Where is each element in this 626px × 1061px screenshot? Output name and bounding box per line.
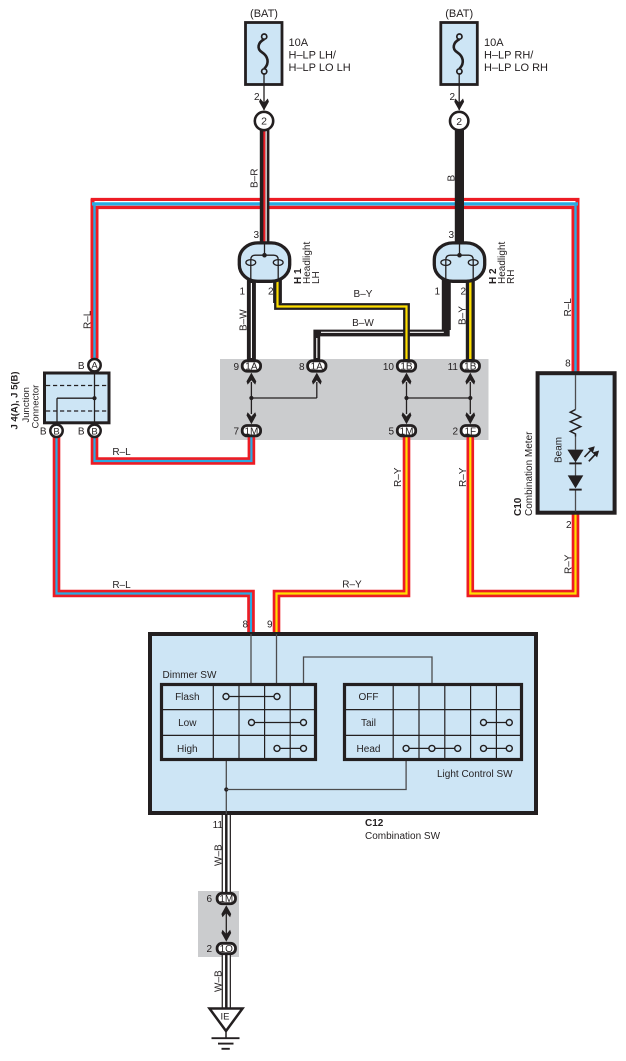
- wire R-L left vertical to junction connector A: [91, 199, 99, 359]
- svg-text:B: B: [53, 426, 59, 437]
- svg-text:2: 2: [261, 116, 267, 128]
- svg-text:B–Y: B–Y: [354, 289, 373, 300]
- svg-text:Connector: Connector: [31, 385, 42, 429]
- wire R-L right vertical blue stripe: [574, 203, 576, 373]
- connector oval 1A pin 9: [242, 361, 260, 373]
- svg-text:1O: 1O: [220, 944, 234, 955]
- svg-text:Low: Low: [178, 718, 197, 729]
- svg-text:3: 3: [448, 230, 454, 241]
- fuse 10A H-LP LH (BAT): [246, 23, 283, 111]
- svg-text:2: 2: [456, 116, 462, 128]
- resistor in C10: [570, 410, 580, 437]
- wire R-L main horizontal bus: [91, 198, 580, 210]
- connector oval 1M pin 7: [242, 426, 260, 438]
- svg-text:C10: C10: [513, 497, 524, 516]
- wire R-Y junction 1F pin 2 to combination meter C10 pin 2: [470, 436, 575, 594]
- svg-text:1B: 1B: [400, 362, 413, 373]
- svg-text:RH: RH: [506, 270, 517, 284]
- svg-text:Combination Meter: Combination Meter: [524, 431, 535, 516]
- svg-text:10A: 10A: [289, 37, 309, 49]
- light control switch Head contacts: [403, 745, 512, 751]
- svg-text:R–Y: R–Y: [458, 467, 469, 487]
- svg-text:1B: 1B: [464, 362, 477, 373]
- combination switch C12 box: [150, 634, 536, 814]
- svg-text:Head: Head: [357, 744, 381, 755]
- svg-text:C12: C12: [365, 818, 384, 829]
- svg-text:H–LP LO LH: H–LP LO LH: [289, 62, 351, 74]
- junction wiring column 1B/1M pin10-5: [402, 373, 471, 425]
- junction connector terminal B right: [88, 425, 100, 438]
- svg-text:R–L: R–L: [82, 310, 93, 329]
- svg-text:(BAT): (BAT): [250, 8, 278, 20]
- svg-text:J 4(A), J 5(B): J 4(A), J 5(B): [10, 371, 21, 429]
- dimmer switch High contacts: [274, 745, 307, 751]
- svg-text:1M: 1M: [244, 426, 258, 437]
- connector oval 1B pin 11: [461, 361, 479, 373]
- wire W-B connector 1O pin 2 to ground IE: [222, 954, 231, 1009]
- svg-text:A: A: [91, 361, 98, 372]
- svg-text:R–Y: R–Y: [563, 554, 574, 574]
- svg-text:11: 11: [448, 362, 459, 373]
- headlight H1 bulb: [239, 243, 289, 282]
- wire B fuse RH to headlight H2 pin 3: [455, 130, 464, 244]
- svg-text:High: High: [177, 744, 198, 755]
- wire B-R fuse LH to headlight H1 pin 3: [264, 130, 266, 244]
- wire B-W headlight H2 pin 1 to junction 1A pin 8: [317, 279, 447, 361]
- svg-text:LH: LH: [311, 271, 322, 284]
- lower connector grey band: [198, 891, 239, 957]
- lower connector wiring 1M-1O: [221, 905, 231, 942]
- wire B-Y headlight H2 pin 2 to junction 1B pin 11: [466, 279, 475, 361]
- ground symbol: [212, 1038, 240, 1049]
- wire R-L right vertical to C10 pin 8: [572, 199, 580, 373]
- svg-text:1A: 1A: [311, 362, 324, 373]
- junction connector J4(A) J5(B): [45, 373, 110, 423]
- connector oval 1M pin 6: [217, 893, 235, 905]
- svg-text:Beam: Beam: [554, 437, 565, 463]
- svg-text:B–R: B–R: [250, 169, 261, 188]
- svg-text:1: 1: [434, 287, 440, 298]
- svg-text:Combination SW: Combination SW: [365, 831, 441, 842]
- LED Beam in C10: [567, 446, 599, 463]
- dimmer switch Low contacts: [249, 720, 307, 726]
- svg-text:9: 9: [267, 620, 273, 631]
- svg-text:2: 2: [566, 520, 572, 531]
- svg-text:OFF: OFF: [359, 692, 379, 703]
- connector oval 1M pin 5: [397, 426, 415, 438]
- svg-text:Flash: Flash: [175, 692, 199, 703]
- light control switch Tail contacts: [481, 720, 513, 726]
- svg-text:2: 2: [449, 92, 455, 103]
- svg-text:B–W: B–W: [238, 309, 249, 331]
- svg-text:B–W: B–W: [352, 318, 374, 329]
- svg-text:R–L: R–L: [112, 580, 131, 591]
- svg-text:W–B: W–B: [213, 970, 224, 992]
- svg-text:B: B: [91, 426, 97, 437]
- wire R-L junction 1M pin 7 to junction connector B: [95, 436, 252, 461]
- svg-text:W–B: W–B: [213, 844, 224, 866]
- ground IE triangle: [210, 1009, 243, 1039]
- svg-text:11: 11: [213, 820, 224, 831]
- svg-text:10A: 10A: [484, 37, 504, 49]
- wire B-W headlight H1 pin 1 to junction 1A pin 9: [247, 280, 256, 361]
- svg-text:10: 10: [383, 362, 395, 373]
- wire R-L left vertical blue stripe: [93, 203, 95, 359]
- svg-text:2: 2: [206, 944, 212, 955]
- svg-text:R–L: R–L: [112, 447, 131, 458]
- svg-text:1: 1: [239, 287, 245, 298]
- connector oval 1A pin 8: [308, 361, 326, 373]
- fuse output connector oval 2 (RH): [450, 112, 468, 130]
- svg-text:3: 3: [253, 230, 259, 241]
- svg-text:1F: 1F: [464, 426, 476, 437]
- dimmer switch Flash contacts: [223, 694, 280, 700]
- wire W-B combination switch pin 11 to connector 1M pin 6: [222, 814, 231, 892]
- wire R-L junction connector B to combination switch pin 8: [57, 437, 252, 633]
- svg-text:IE: IE: [221, 1012, 230, 1023]
- svg-text:1M: 1M: [219, 894, 233, 905]
- junction wiring column 1A pin8: [312, 373, 322, 398]
- svg-text:7: 7: [233, 427, 239, 438]
- svg-text:2: 2: [460, 287, 466, 298]
- combination meter C10 box: [538, 373, 615, 513]
- junction block grey band: [220, 359, 489, 440]
- junction wiring column 1A/1M pin9-7: [247, 373, 317, 425]
- svg-text:Dimmer SW: Dimmer SW: [163, 670, 217, 681]
- junction connector terminal A: [88, 359, 100, 372]
- svg-text:9: 9: [233, 362, 239, 373]
- svg-text:B: B: [78, 361, 85, 372]
- svg-text:B: B: [447, 175, 458, 182]
- svg-text:H–LP LH/: H–LP LH/: [289, 50, 337, 62]
- svg-text:8: 8: [565, 359, 571, 370]
- svg-text:H–LP LO RH: H–LP LO RH: [484, 62, 548, 74]
- svg-text:6: 6: [206, 894, 212, 905]
- wire B-Y headlight H1 pin 2 to junction 1B pin 10: [278, 279, 407, 361]
- svg-text:R–Y: R–Y: [393, 467, 404, 487]
- svg-text:Light Control SW: Light Control SW: [437, 769, 513, 780]
- svg-text:R–L: R–L: [563, 298, 574, 317]
- svg-text:2: 2: [452, 427, 458, 438]
- svg-text:(BAT): (BAT): [445, 8, 473, 20]
- svg-text:R–Y: R–Y: [342, 580, 362, 591]
- svg-text:5: 5: [388, 427, 394, 438]
- svg-text:1A: 1A: [245, 362, 258, 373]
- headlight H2 bulb: [434, 243, 484, 282]
- connector oval 1F pin 2: [461, 426, 479, 438]
- dimmer switch table: [160, 683, 317, 761]
- light control switch table: [343, 683, 523, 761]
- svg-text:2: 2: [254, 92, 260, 103]
- junction wiring column 1B/1F pin11-2: [465, 373, 475, 425]
- svg-text:8: 8: [242, 620, 248, 631]
- svg-text:1M: 1M: [400, 426, 414, 437]
- svg-text:Tail: Tail: [361, 718, 376, 729]
- svg-text:8: 8: [299, 362, 305, 373]
- svg-text:B: B: [78, 427, 85, 438]
- fuse 10A H-LP RH (BAT): [441, 23, 478, 111]
- wire R-Y junction 1M pin 5 to combination switch pin 9: [277, 436, 407, 633]
- junction connector terminal B left: [50, 425, 62, 438]
- connector oval 1B pin 10: [397, 361, 415, 373]
- svg-text:2: 2: [268, 287, 274, 298]
- svg-text:B–Y: B–Y: [458, 306, 469, 325]
- fuse output connector oval 2 (LH): [255, 112, 273, 130]
- connector oval 1O pin 2: [217, 943, 235, 955]
- diode in C10: [568, 475, 584, 489]
- svg-text:H–LP RH/: H–LP RH/: [484, 50, 534, 62]
